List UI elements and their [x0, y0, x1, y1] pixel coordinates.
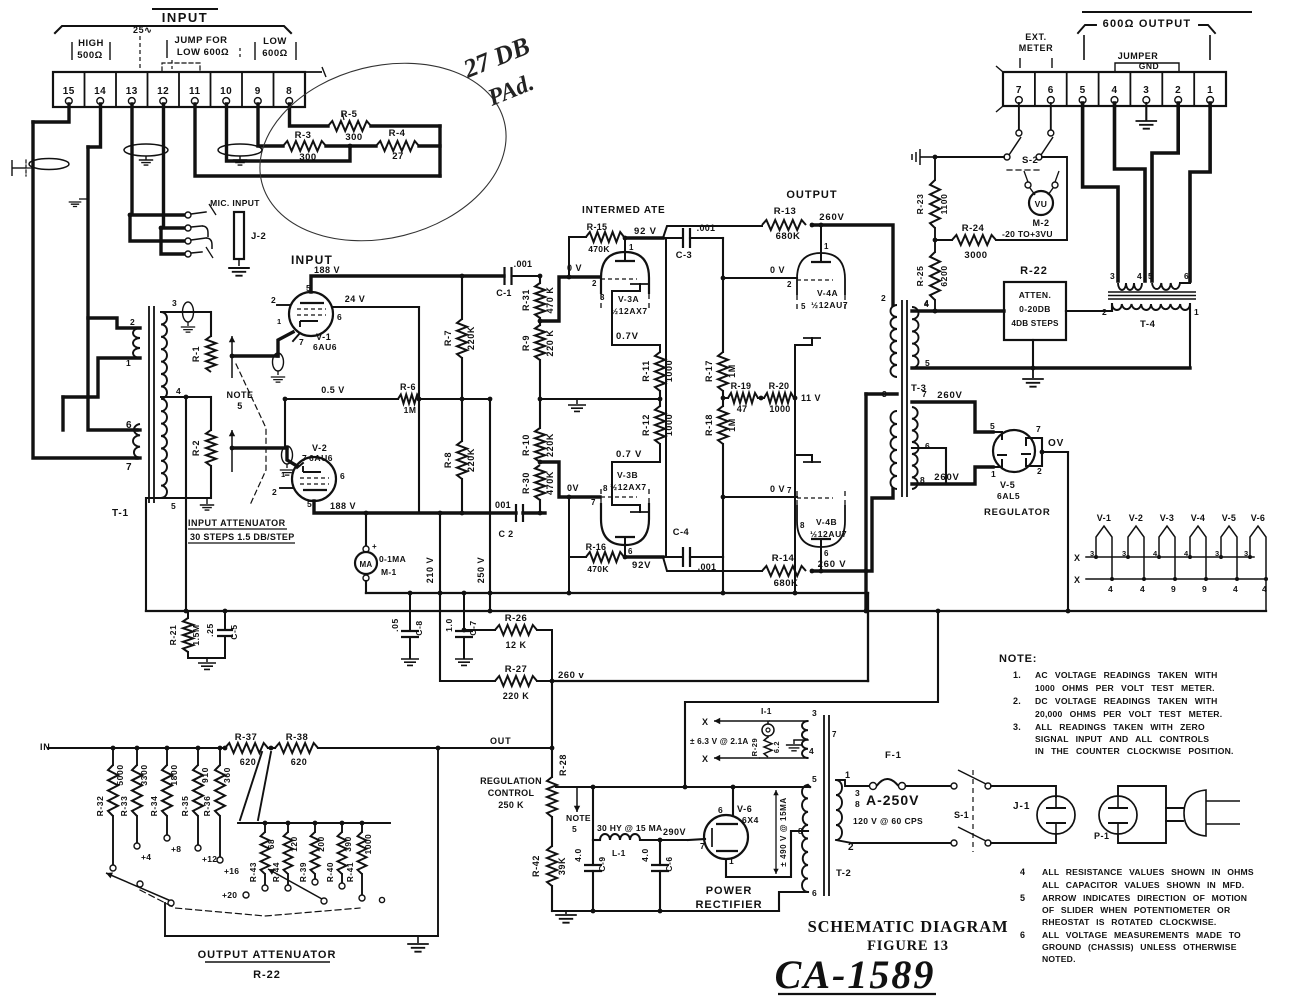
svg-text:V-2: V-2 [312, 443, 327, 453]
tube V-3A half 12AX7 [592, 243, 649, 316]
wire jack branch row3 [130, 215, 185, 241]
label 290V [663, 827, 686, 837]
svg-text:3: 3 [172, 298, 177, 308]
svg-text:3: 3 [855, 788, 860, 798]
svg-text:001: 001 [495, 500, 511, 510]
label JUMPER GND [1115, 51, 1179, 72]
svg-text:ALL VOLTAGE MEASUREMENTS MADE: ALL VOLTAGE MEASUREMENTS MADE TO [1042, 930, 1241, 940]
svg-text:470 K: 470 K [545, 286, 555, 313]
wire 92V jog to R-14 [663, 557, 762, 571]
svg-text:8: 8 [798, 826, 803, 836]
svg-text:4: 4 [1108, 584, 1113, 594]
transformer T-3 core [902, 300, 907, 497]
wire vertical 24V-188V link [417, 307, 422, 513]
wire terminal 2 to T-4 w5 [1152, 103, 1178, 281]
wire terminal 7 contact [1016, 103, 1022, 136]
svg-text:20,000 OHMS PER VOLT TEST METE: 20,000 OHMS PER VOLT TEST METER. [1035, 709, 1222, 719]
svg-text:R-9: R-9 [521, 335, 531, 351]
potentiometer R-2 [191, 397, 216, 498]
wire terminal 14 down-left [88, 104, 101, 147]
svg-text:I-1: I-1 [761, 706, 772, 716]
svg-text:R-29: R-29 [750, 738, 759, 757]
label 0.7V V-3A [616, 331, 639, 342]
plug cable [1166, 808, 1183, 821]
svg-text:R-3: R-3 [295, 130, 312, 141]
svg-text:R-37: R-37 [235, 732, 258, 743]
svg-text:11 V: 11 V [801, 393, 821, 403]
tube V-1 6AU6 [271, 283, 342, 352]
svg-text:R-43: R-43 [249, 862, 258, 882]
svg-text:7: 7 [299, 337, 304, 347]
svg-text:R-22: R-22 [1020, 265, 1048, 277]
svg-text:1000: 1000 [769, 404, 790, 414]
wire 92V lower bus [625, 555, 663, 558]
svg-text:260V: 260V [934, 472, 959, 483]
resistor R-44 120 [272, 821, 299, 891]
svg-text:9: 9 [255, 86, 261, 97]
svg-text:470K: 470K [588, 244, 610, 254]
wire S-2 to ground bus [935, 156, 1004, 158]
svg-text:0 V: 0 V [770, 265, 785, 275]
wire left bus A [33, 122, 137, 458]
T-3 tap 3 lead [866, 389, 897, 399]
ground T-1 tap 5 [200, 498, 214, 510]
wire T-3 tap3 down [864, 394, 869, 613]
R-28 slider arrow [574, 786, 580, 812]
svg-text:2.: 2. [1013, 696, 1021, 706]
wire heater bus to rail [1265, 579, 1267, 611]
resistor R-34 1800 [149, 746, 181, 854]
wire R-3 to junction [326, 144, 350, 147]
svg-text:2: 2 [592, 279, 597, 288]
switch S-2 [1004, 137, 1053, 170]
wire R-5 to right bus [371, 124, 440, 127]
svg-text:R-30: R-30 [521, 472, 531, 494]
svg-text:4: 4 [924, 299, 929, 309]
wire winding5 to B+ bus [808, 785, 810, 787]
svg-text:2: 2 [1037, 466, 1042, 476]
V-5 pins 7-2 loop [1035, 438, 1044, 466]
node R-17/R-18/R-19 junction [721, 396, 726, 401]
tube V-4B half 12AU7 [787, 486, 847, 558]
meter M-2 VU [1024, 171, 1059, 228]
wire attenuator right rail [436, 746, 441, 936]
svg-text:RECTIFIER: RECTIFIER [695, 899, 762, 911]
node 11V [793, 393, 821, 403]
svg-text:260V: 260V [819, 212, 844, 223]
resistor R-43 68 [249, 821, 276, 891]
svg-text:C-8: C-8 [414, 620, 424, 636]
svg-text:2: 2 [787, 280, 792, 289]
label JUMP FOR LOW 600 [167, 35, 240, 70]
svg-text:LOW 600Ω: LOW 600Ω [177, 47, 229, 58]
wire V-5 0V down [1066, 452, 1071, 613]
ground terminal 3 [1136, 103, 1158, 129]
svg-text:4: 4 [1020, 867, 1025, 877]
svg-text:T-4: T-4 [1140, 319, 1156, 330]
resistor R-5 [328, 109, 371, 143]
svg-text:5: 5 [307, 499, 312, 509]
wire primary 1 to fuse [836, 780, 869, 786]
svg-text:R-33: R-33 [119, 796, 129, 817]
svg-text:680K: 680K [774, 578, 799, 589]
svg-text:6: 6 [1048, 85, 1054, 96]
label INPUT ATTENUATOR [188, 518, 295, 543]
svg-text:4: 4 [1233, 584, 1238, 594]
transformer T-3 primary upper [881, 293, 897, 377]
transformer T-1 primary lower (6-7) [126, 420, 140, 473]
capacitor C-7 1.0 [444, 591, 478, 666]
svg-text:R-10: R-10 [521, 434, 531, 456]
shield oval left bus [29, 159, 69, 170]
svg-text:A-250V: A-250V [866, 792, 919, 808]
svg-text:+8: +8 [171, 844, 181, 854]
label POWER RECTIFIER [695, 885, 762, 911]
svg-text:V-5: V-5 [1000, 480, 1015, 490]
svg-text:ALL RESISTANCE VALUES SHOWN IN: ALL RESISTANCE VALUES SHOWN IN OHMS [1042, 867, 1254, 877]
shield oval V-2 grid [280, 446, 294, 475]
svg-text:R-39: R-39 [299, 862, 308, 882]
jack contacts MIC input [185, 204, 216, 258]
svg-text:V-1: V-1 [1097, 513, 1111, 523]
svg-text:M-1: M-1 [381, 567, 397, 577]
svg-text:5: 5 [1148, 271, 1153, 281]
svg-text:188 V: 188 V [330, 501, 356, 511]
transformer T-1 primary upper (2-1) [126, 317, 140, 368]
svg-text:13: 13 [126, 86, 138, 97]
svg-text:3: 3 [1110, 271, 1115, 281]
transformer T-4 core [1108, 292, 1196, 299]
transformer T-3 secondary upper [912, 298, 930, 368]
svg-text:R-13: R-13 [774, 206, 797, 217]
svg-text:V-4: V-4 [1191, 513, 1205, 523]
wire rail B [146, 609, 1266, 614]
svg-text:C 2: C 2 [499, 529, 514, 539]
svg-text:3: 3 [600, 293, 605, 302]
wire bank1 wiper down [164, 903, 166, 936]
label +20 contact [222, 890, 249, 900]
transformer T-2 heater winding [802, 721, 837, 758]
svg-text:27: 27 [392, 151, 404, 162]
svg-text:½12AU7: ½12AU7 [810, 529, 847, 539]
svg-text:620: 620 [291, 757, 308, 767]
wire 250V line [476, 397, 492, 611]
wire ground rail bottom [552, 909, 779, 914]
svg-text:12 K: 12 K [505, 640, 526, 650]
wire terminal 4 to T-4 w4 [1115, 103, 1146, 281]
svg-text:V-3: V-3 [1160, 513, 1174, 523]
svg-text:7: 7 [591, 498, 596, 507]
resistor R-4 [350, 128, 419, 162]
svg-text:NOTE: NOTE [566, 813, 591, 823]
svg-text:7: 7 [832, 730, 837, 739]
svg-text:1.0: 1.0 [444, 618, 454, 632]
node R-23/R-24/R-25 [933, 228, 938, 252]
capacitor C-8 .05 [390, 591, 424, 666]
svg-text:1: 1 [1194, 307, 1199, 317]
svg-text:M-2: M-2 [1033, 218, 1050, 228]
svg-text:4: 4 [176, 386, 181, 396]
label 0.7V V-3B [616, 449, 642, 460]
resistor R-29 6.2 [750, 737, 781, 757]
wire terminal 13 to jack [128, 104, 185, 217]
svg-text:620: 620 [240, 757, 257, 767]
dashed gang link R-1 R-2 [236, 364, 266, 505]
wire terminal 11 to pad bottom [195, 104, 440, 176]
svg-text:4.0: 4.0 [573, 848, 583, 862]
meter M-1 0-1MA [355, 513, 406, 593]
svg-text:8: 8 [800, 521, 805, 530]
svg-text:R-17: R-17 [704, 360, 714, 382]
wire pad right bus [438, 126, 441, 176]
svg-text:7: 7 [700, 841, 705, 851]
wiper arm bank2 [268, 869, 327, 904]
T-4 secondary leads [1066, 304, 1190, 368]
resistor R-12 1000 [641, 391, 674, 444]
svg-text:MA: MA [359, 560, 372, 569]
resistor R-24 3000 [935, 223, 996, 261]
wire V-4 cathode to rail [794, 455, 796, 593]
V-2 pin 2 stub [280, 487, 293, 489]
svg-text:R-18: R-18 [704, 414, 714, 436]
V-1 pin 2 stub [277, 304, 290, 306]
svg-text:½12AX7: ½12AX7 [611, 306, 648, 316]
svg-text:+16: +16 [224, 866, 239, 876]
svg-text:V-1: V-1 [316, 332, 331, 342]
wire 188V lower bus [314, 501, 516, 515]
svg-text:SIGNAL INPUT AND ALL CONTROLS: SIGNAL INPUT AND ALL CONTROLS [1035, 734, 1209, 744]
transformer T-2 core [824, 715, 829, 896]
resistor R-7 220K [443, 276, 476, 399]
label NOTE 5 R-28 [566, 813, 591, 834]
connector shield left [12, 160, 33, 176]
resistor R-37 620 [223, 732, 268, 767]
transformer T-1 core [149, 306, 154, 503]
label 0.5 V [321, 385, 345, 395]
svg-text:V-3B: V-3B [617, 470, 638, 480]
label MIC. INPUT [210, 198, 260, 208]
svg-text:R-15: R-15 [587, 222, 608, 232]
capacitor C-9 4.0 [573, 840, 607, 911]
wire R-22 box ground stem [1032, 340, 1034, 368]
svg-text:1: 1 [824, 242, 829, 251]
svg-text:R-2: R-2 [191, 440, 201, 456]
svg-text:1: 1 [1207, 85, 1213, 96]
svg-text:R-38: R-38 [286, 732, 309, 743]
wire jack branch row4 [161, 228, 185, 254]
svg-text:LOW: LOW [263, 36, 287, 47]
svg-text:+4: +4 [141, 852, 151, 862]
node 260V R-14 [810, 559, 847, 573]
wire rail A [366, 591, 868, 596]
svg-text:470K: 470K [587, 564, 609, 574]
inductor L-1 30HY [593, 787, 688, 858]
wire stub left [61, 397, 64, 430]
svg-text:6.2: 6.2 [772, 741, 781, 753]
svg-text:0 V: 0 V [770, 484, 785, 494]
wire attenuator bottom rail [165, 935, 438, 937]
svg-text:1.: 1. [1013, 670, 1021, 680]
svg-text:C-1: C-1 [496, 288, 511, 298]
svg-text:10: 10 [220, 86, 232, 97]
svg-text:1800: 1800 [169, 764, 179, 785]
wire 290V to V-6 pin7 [688, 839, 705, 840]
shield oval on 13/12 pair [124, 144, 168, 165]
ground attenuator [407, 936, 429, 952]
transformer T-2 primary [836, 770, 854, 853]
svg-text:V-3A: V-3A [618, 294, 639, 304]
svg-text:3: 3 [1143, 85, 1149, 96]
V-3B cathode hook [612, 444, 660, 512]
T-1 tap 4 lead [161, 386, 211, 399]
svg-text:5: 5 [171, 501, 176, 511]
svg-text:14: 14 [94, 86, 106, 97]
label OUTPUT stage [786, 189, 837, 201]
svg-text:X: X [1074, 553, 1080, 563]
node R-3/R-4 junction [348, 144, 353, 149]
svg-text:JUMPER: JUMPER [1118, 51, 1159, 61]
wire 24V V-1 plate [333, 294, 419, 307]
resistor R-41 1000 [346, 821, 373, 901]
svg-text:4: 4 [1137, 271, 1142, 281]
node R-31/R-9 92V junction [538, 319, 543, 324]
svg-text:0-1MA: 0-1MA [379, 554, 406, 564]
svg-text:2: 2 [881, 293, 886, 303]
svg-text:4.0: 4.0 [640, 848, 650, 862]
svg-text:1: 1 [845, 770, 851, 780]
resistor R-13 680K [762, 206, 806, 242]
wire R-28 wiper bus [556, 785, 810, 790]
svg-text:6: 6 [812, 888, 817, 898]
svg-text:92V: 92V [632, 560, 651, 571]
svg-text:R-31: R-31 [521, 289, 531, 311]
svg-text:260 V: 260 V [818, 559, 847, 570]
resistor R-14 680K [762, 553, 806, 589]
resistor R-33 3300 [119, 746, 151, 862]
transformer T-4 secondary [1102, 304, 1199, 330]
resistor R-42 39K [531, 817, 567, 911]
V-3A cathode hook [612, 284, 660, 352]
svg-text:1000 OHMS PER VOLT TEST METER.: 1000 OHMS PER VOLT TEST METER. [1035, 683, 1215, 693]
T-1 tap 3 lead [161, 298, 211, 312]
svg-text:DC VOLTAGE READINGS TAKEN WITH: DC VOLTAGE READINGS TAKEN WITH [1035, 696, 1218, 706]
svg-text:360: 360 [222, 767, 232, 783]
wire 92V to V-3A grid [540, 277, 600, 321]
transformer T-3 secondary lower [912, 389, 930, 489]
svg-text:7: 7 [302, 453, 307, 463]
wire 260V rail to R-28 [550, 681, 555, 777]
svg-text:-20 TO+3VU: -20 TO+3VU [1002, 229, 1053, 239]
svg-text:R-35: R-35 [180, 796, 190, 817]
wire B+ feed loop [685, 609, 940, 787]
label EXT METER [1019, 32, 1054, 68]
svg-text:6: 6 [824, 549, 829, 558]
svg-text:R-16: R-16 [586, 542, 607, 552]
svg-text:6AU6: 6AU6 [313, 342, 337, 352]
label LOW 600 [255, 36, 296, 60]
svg-text:R-27: R-27 [505, 664, 528, 675]
svg-text:JUMP FOR: JUMP FOR [175, 35, 228, 46]
wire T-3 tap6 loop [912, 448, 946, 484]
svg-text:15: 15 [63, 86, 75, 97]
svg-text:470K: 470K [545, 471, 555, 495]
svg-text:4: 4 [809, 746, 814, 756]
svg-text:V-4B: V-4B [816, 517, 837, 527]
svg-text:R-12: R-12 [641, 414, 651, 436]
svg-text:+: + [372, 542, 377, 551]
terminal strip TS1 INPUT (terminals 15-8) [53, 67, 326, 107]
svg-text:3300: 3300 [139, 764, 149, 785]
svg-text:R-6: R-6 [400, 382, 416, 392]
ground bottom rail [555, 911, 577, 923]
svg-text:EXT.: EXT. [1025, 32, 1046, 42]
R-2 slider arrow [229, 430, 235, 472]
wire terminal 8 to R-5 [290, 104, 329, 126]
svg-text:6: 6 [925, 441, 930, 451]
wire 0.5V bus [283, 397, 490, 402]
resistor R-32 5000 [95, 746, 125, 871]
svg-text:260V: 260V [937, 390, 962, 401]
wire bank2 top rail [238, 822, 390, 824]
note text 4-6 [1020, 867, 1254, 964]
svg-text:24 V: 24 V [345, 294, 366, 304]
svg-text:RHEOSTAT IS ROTATED CLOCKWISE.: RHEOSTAT IS ROTATED CLOCKWISE. [1042, 917, 1216, 927]
T-1 tap 5 lead [161, 498, 211, 511]
svg-text:200: 200 [317, 836, 326, 851]
node tap4 bus [924, 299, 937, 313]
resistor R-39 200 [299, 821, 326, 885]
svg-text:INPUT: INPUT [162, 10, 209, 25]
wire rail C 260V [552, 680, 868, 682]
label INPUT title [55, 9, 291, 33]
resistor R-36 360 [202, 746, 239, 876]
annotation ellipse 27DB pad [241, 38, 525, 265]
wire C-4 to 0V bus [721, 495, 726, 593]
svg-text:1M: 1M [404, 405, 417, 415]
label T-2 [836, 868, 851, 879]
switch S-1 [951, 770, 991, 852]
svg-text:.001: .001 [514, 259, 533, 269]
svg-text:C-7: C-7 [468, 620, 478, 636]
svg-text:6AL5: 6AL5 [997, 491, 1020, 501]
wire mid ground bus [540, 397, 662, 402]
svg-text:910: 910 [200, 767, 210, 783]
label OUTPUT ATTENUATOR [198, 949, 337, 981]
svg-text:R-14: R-14 [772, 553, 795, 564]
svg-text:7: 7 [126, 462, 132, 473]
svg-text:C-4: C-4 [673, 527, 690, 537]
connector J-1 [991, 786, 1075, 843]
svg-text:6X4: 6X4 [742, 815, 759, 825]
svg-text:V-2: V-2 [1129, 513, 1143, 523]
label 0V V-3A [567, 263, 582, 273]
svg-text:2: 2 [1175, 85, 1181, 96]
svg-text:ATTEN.: ATTEN. [1019, 290, 1051, 300]
svg-text:1000: 1000 [664, 360, 674, 382]
svg-text:± 6.3 V @ 2.1A: ± 6.3 V @ 2.1A [690, 737, 749, 746]
wire 260V to T-3 primary top [812, 225, 893, 305]
capacitor C-5 .25 [205, 611, 239, 658]
label 0V V-3B [567, 483, 579, 493]
svg-text:.05: .05 [390, 618, 400, 632]
svg-text:R-19: R-19 [731, 381, 752, 391]
tube V-2 6AU6 [272, 443, 345, 509]
svg-text:C-9: C-9 [597, 856, 607, 872]
svg-text:.001: .001 [698, 562, 717, 572]
label 188 V top [314, 265, 340, 275]
wire R-37 junction to bank2 [240, 752, 271, 820]
label INTERMEDIATE [582, 205, 666, 216]
